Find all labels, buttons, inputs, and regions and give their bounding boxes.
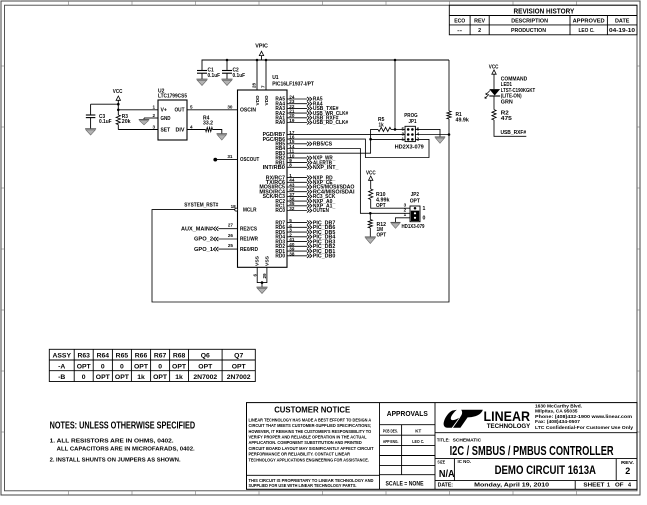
- svg-text:--: --: [457, 28, 462, 34]
- svg-text:R67: R67: [154, 353, 167, 360]
- net label RA5: [287, 97, 323, 103]
- svg-text:OSCIN: OSCIN: [240, 107, 256, 113]
- svg-text:27: 27: [228, 223, 234, 228]
- svg-text:SHEET: SHEET: [583, 483, 605, 489]
- svg-text:SCHEMATIC: SCHEMATIC: [453, 437, 482, 443]
- svg-text:LEO C.: LEO C.: [579, 28, 595, 34]
- svg-text:USB_RXF#: USB_RXF#: [501, 130, 527, 136]
- svg-text:R68: R68: [173, 353, 186, 360]
- revision history table: [449, 5, 637, 35]
- svg-text:Q7: Q7: [234, 353, 243, 360]
- svg-text:OPT: OPT: [232, 363, 247, 370]
- wire RB3 (pin 11) to R5 / JP1 pin 1: [287, 129, 378, 153]
- svg-text:APPROVED: APPROVED: [573, 19, 605, 25]
- svg-text:OPT: OPT: [134, 363, 149, 370]
- svg-text:GND: GND: [161, 116, 171, 122]
- ground (R4): [217, 133, 228, 135]
- svg-text:0: 0: [158, 363, 162, 370]
- svg-text:LINEAR: LINEAR: [484, 408, 531, 424]
- svg-text:GPO_2: GPO_2: [194, 237, 213, 243]
- svg-text:REVISION HISTORY: REVISION HISTORY: [514, 9, 575, 16]
- svg-text:-A: -A: [58, 363, 65, 370]
- svg-text:DIV: DIV: [176, 127, 186, 133]
- svg-text:2: 2: [478, 28, 481, 34]
- wire JP1 pin 6 to ground: [415, 129, 440, 137]
- svg-text:KT: KT: [415, 429, 421, 434]
- svg-text:AUX_MAIN#: AUX_MAIN#: [181, 226, 213, 232]
- svg-text:LINEAR TECHNOLOGY HAS MADE A B: LINEAR TECHNOLOGY HAS MADE A BEST EFFORT…: [249, 417, 372, 422]
- wire PGC/RB6 (pin 16) to JP1 pin 2: [287, 139, 429, 157]
- svg-text:1: 1: [401, 136, 404, 141]
- svg-text:ASSY: ASSY: [52, 353, 71, 360]
- junction RB3/JP1 pin 1: [369, 138, 372, 141]
- svg-text:SUPPLIED FOR USE WITH LINEAR T: SUPPLIED FOR USE WITH LINEAR TECHNOLOGY …: [249, 483, 357, 488]
- junction VSS: [261, 281, 264, 284]
- svg-text:JP1: JP1: [409, 119, 417, 125]
- svg-text:1: 1: [607, 483, 610, 489]
- svg-text:R64: R64: [97, 353, 110, 360]
- svg-text:OUTEN: OUTEN: [313, 208, 329, 214]
- svg-text:0: 0: [101, 363, 105, 370]
- svg-text:IC NO.: IC NO.: [458, 459, 472, 464]
- svg-text:1: 1: [152, 105, 155, 110]
- svg-text:OPT: OPT: [410, 198, 421, 204]
- svg-text:25: 25: [228, 243, 234, 248]
- svg-text:33.2: 33.2: [203, 121, 213, 127]
- svg-text:APPLICATION. COMPONENT SUBSTI: APPLICATION. COMPONENT SUBSTITUTION AND …: [249, 440, 363, 445]
- svg-text:VSS: VSS: [255, 256, 260, 266]
- svg-text:Milpitas, CA 95035: Milpitas, CA 95035: [535, 409, 578, 414]
- svg-text:PCB DES.: PCB DES.: [383, 429, 398, 434]
- svg-text:PRODUCTION: PRODUCTION: [511, 28, 546, 34]
- capacitor C3 0.1uF: [86, 104, 112, 129]
- net label NXP_RD_: [287, 175, 335, 181]
- wire C3 branch: [91, 103, 119, 105]
- wire VCC vertical to V+ and SET: [117, 100, 119, 129]
- net label PIC_DB3: [287, 239, 335, 245]
- svg-text:R63: R63: [77, 353, 90, 360]
- wire R4 to ground: [213, 130, 222, 134]
- notes text: [50, 421, 196, 464]
- svg-text:OUT: OUT: [175, 108, 186, 114]
- svg-text:OPT: OPT: [115, 374, 130, 381]
- svg-text:4: 4: [628, 483, 631, 489]
- svg-text:1k: 1k: [379, 122, 384, 128]
- ground (C2): [222, 78, 233, 80]
- net label GPO_2: [194, 237, 238, 243]
- svg-text:2: 2: [625, 466, 630, 476]
- svg-text:DESCRIPTION: DESCRIPTION: [511, 19, 548, 25]
- svg-text:26: 26: [228, 233, 234, 238]
- svg-text:NXP_INT_: NXP_INT_: [313, 165, 339, 171]
- ground (JP1 pin 6): [435, 136, 446, 138]
- svg-text:29: 29: [262, 273, 267, 279]
- svg-text:APPROVALS: APPROVALS: [387, 411, 428, 418]
- svg-text:GRN: GRN: [501, 100, 513, 106]
- svg-text:2N7002: 2N7002: [227, 374, 251, 381]
- net label RC4/MISO/SDAI: [287, 189, 355, 195]
- svg-text:HD1X3-079: HD1X3-079: [402, 224, 425, 230]
- svg-text:5: 5: [190, 105, 193, 110]
- wire VSS pins to ground: [257, 267, 267, 287]
- svg-text:HD2X3-079: HD2X3-079: [395, 144, 424, 150]
- svg-text:4: 4: [190, 124, 193, 129]
- svg-text:Fax: (408)434-0507: Fax: (408)434-0507: [535, 419, 581, 424]
- svg-text:OF: OF: [615, 483, 624, 489]
- svg-text:2. INSTALL SHUNTS ON JUMPERS A: 2. INSTALL SHUNTS ON JUMPERS AS SHOWN.: [50, 458, 181, 464]
- svg-text:0: 0: [120, 363, 124, 370]
- junction C2/rail: [226, 59, 229, 62]
- svg-text:USB_RD_CLK#: USB_RD_CLK#: [313, 120, 348, 126]
- junction OSCOUT end dot: [213, 158, 217, 162]
- net label RC3_SCK: [287, 194, 336, 200]
- junction JP1 pin4 / MCLR vertical: [448, 133, 451, 136]
- junction VPIC rail / drop: [394, 59, 397, 62]
- svg-text:VERIFY PROPER AND RELIABLE OPE: VERIFY PROPER AND RELIABLE OPERATION IN …: [249, 435, 367, 440]
- resistor R2 475: [492, 110, 512, 122]
- power symbol VCC (LED1): [489, 65, 499, 90]
- net label PIC_DB0: [287, 254, 335, 260]
- wire U2 GND pin: [144, 118, 158, 120]
- svg-text:3: 3: [152, 124, 155, 129]
- svg-text:OPT: OPT: [377, 233, 387, 239]
- wire OSCOUT stub: [215, 159, 237, 161]
- svg-text:SCALE = NONE: SCALE = NONE: [386, 481, 424, 488]
- svg-text:VCC: VCC: [113, 89, 123, 95]
- svg-text:OPT: OPT: [172, 363, 187, 370]
- svg-text:2: 2: [417, 136, 420, 141]
- net label PIC_DB5: [287, 230, 335, 236]
- svg-text:7: 7: [261, 85, 266, 88]
- svg-text:LTC Confidential-For Customer: LTC Confidential-For Customer Use Only: [535, 425, 634, 430]
- svg-text:CIRCUIT BOARD LAYOUT MAY SIGNI: CIRCUIT BOARD LAYOUT MAY SIGNIFICANTLY A…: [249, 446, 374, 451]
- svg-text:Monday, April 19, 2010: Monday, April 19, 2010: [474, 483, 549, 489]
- svg-text:R65: R65: [116, 353, 129, 360]
- net label USB_TXE#: [287, 106, 339, 112]
- net label RC5/MOSI/SDAO: [287, 185, 355, 191]
- net label OUTEN: [287, 208, 329, 214]
- wire RB4 (pin 14) to JP2 pin 2: [287, 149, 410, 214]
- assembly options table: [49, 349, 255, 381]
- net label RB5/CS: [287, 142, 333, 148]
- wire MCLR loop (SYSTEM_RST#): [152, 119, 449, 302]
- connector JP2 OPT HD1X3-079: [402, 192, 426, 230]
- junction VCC/C3: [117, 103, 120, 106]
- capacitor C2 0.1uF: [222, 60, 245, 79]
- svg-text:NOTES: UNLESS OTHERWISE SPECI: NOTES: UNLESS OTHERWISE SPECIFIED: [50, 421, 196, 432]
- svg-text:6: 6: [252, 274, 257, 277]
- svg-text:I2C / SMBUS / PMBUS CONTROLLER: I2C / SMBUS / PMBUS CONTROLLER: [450, 444, 614, 458]
- net label NXP_CE_: [287, 180, 335, 186]
- svg-text:2N7002: 2N7002: [193, 374, 217, 381]
- svg-text:TECHNOLOGY APPLICATIONS ENGINE: TECHNOLOGY APPLICATIONS ENGINEERING FOR …: [249, 457, 369, 462]
- net label PIC_DB7: [287, 220, 335, 226]
- svg-text:RD0: RD0: [275, 254, 285, 260]
- svg-text:20k: 20k: [122, 119, 131, 125]
- svg-text:18: 18: [231, 204, 237, 209]
- net label USB_RD_CLK#: [287, 120, 348, 126]
- svg-text:U1: U1: [272, 75, 279, 81]
- svg-text:31: 31: [227, 154, 233, 159]
- svg-text:30: 30: [227, 104, 233, 109]
- junction RB4 net / R12: [369, 212, 372, 215]
- junction VCC/V+: [117, 109, 120, 112]
- wire R5 to JP1 pin 5: [391, 128, 405, 130]
- net label PIC_DB6: [287, 225, 335, 231]
- svg-text:CIRCUIT THAT MEETS CUSTOMER-SU: CIRCUIT THAT MEETS CUSTOMER-SUPPLIED SPE…: [249, 423, 372, 428]
- net label PIC_DB2: [287, 244, 335, 250]
- resistor R12 1M OPT: [368, 213, 387, 238]
- svg-text:VDD: VDD: [264, 95, 269, 106]
- svg-text:VSS: VSS: [264, 256, 269, 266]
- title block: [247, 403, 638, 490]
- net label NXP_A1_: [287, 204, 335, 210]
- svg-text:RC0: RC0: [275, 208, 285, 214]
- wire VPIC rail drop to JP1 pin 5: [394, 60, 396, 129]
- svg-text:OSCOUT: OSCOUT: [240, 157, 260, 163]
- svg-text:VCC: VCC: [366, 170, 376, 176]
- svg-text:RA0: RA0: [275, 120, 285, 126]
- wire VPIC rail to R1: [448, 60, 450, 111]
- junction R5/VPIC drop: [394, 128, 397, 131]
- svg-text:OPT: OPT: [96, 374, 111, 381]
- svg-text:1k: 1k: [175, 374, 183, 381]
- resistor R1 49.9k: [447, 111, 469, 123]
- net label AUX_MAIN#: [181, 226, 238, 232]
- power symbol VPIC: [255, 43, 268, 60]
- net label PIC_DB4: [287, 235, 335, 241]
- svg-text:HOWEVER, IT REMAINS THE CUSTOM: HOWEVER, IT REMAINS THE CUSTOMER'S RESPO…: [249, 429, 372, 434]
- net label USB_RXF#: [287, 116, 339, 122]
- ground (U2 GND): [139, 119, 150, 121]
- svg-text:04-19-10: 04-19-10: [609, 28, 635, 34]
- svg-text:DATE:: DATE:: [438, 483, 454, 489]
- wire LED to R2: [493, 96, 495, 110]
- svg-text:JP2: JP2: [411, 192, 419, 198]
- svg-text:RB5/CS: RB5/CS: [313, 142, 333, 148]
- net label PIC_DB1: [287, 249, 335, 255]
- wire V+: [118, 109, 158, 111]
- resistor R3 20k: [116, 114, 131, 125]
- resistor R5 1k: [378, 117, 391, 131]
- svg-text:MCLR: MCLR: [243, 207, 257, 213]
- wire R2 to USB_RXF#: [494, 120, 526, 136]
- svg-text:1: 1: [423, 206, 426, 212]
- wire JP1 pin 1 stub: [371, 138, 405, 140]
- svg-text:49.9k: 49.9k: [456, 117, 469, 123]
- svg-text:SIZE: SIZE: [437, 459, 445, 464]
- net label ALERTB: [287, 160, 332, 166]
- net label NXP_A0_: [287, 199, 335, 205]
- svg-text:PIC_DB0: PIC_DB0: [313, 254, 336, 260]
- svg-text:DATE: DATE: [615, 19, 630, 25]
- svg-text:CUSTOMER NOTICE: CUSTOMER NOTICE: [274, 405, 350, 415]
- wire JP1 pin 4 to MCLR net: [415, 134, 449, 136]
- svg-text:0: 0: [423, 215, 426, 221]
- svg-text:LEO C.: LEO C.: [412, 439, 424, 444]
- net label USB_WR_CLK#: [287, 111, 348, 117]
- connector JP1 PROG HD2X3-079: [395, 113, 424, 150]
- svg-text:0: 0: [82, 374, 86, 381]
- wire R10 to JP2 pin 3: [371, 200, 410, 209]
- junction VDD pin 7: [265, 59, 268, 62]
- svg-text:1. ALL RESISTORS ARE IN OHMS,: 1. ALL RESISTORS ARE IN OHMS, 0402.: [50, 439, 175, 445]
- power symbol VCC (JP2 pullup): [366, 170, 376, 189]
- svg-text:2: 2: [152, 113, 155, 118]
- svg-text:0.1uF: 0.1uF: [208, 73, 221, 79]
- net label NXP_WR_: [287, 156, 335, 162]
- power symbol VCC (U2 supply): [113, 89, 123, 100]
- svg-text:DEMO CIRCUIT 1613A: DEMO CIRCUIT 1613A: [495, 463, 597, 477]
- svg-text:TECHNOLOGY: TECHNOLOGY: [487, 423, 531, 430]
- svg-text:INT/RB0: INT/RB0: [263, 165, 286, 171]
- svg-text:OPT: OPT: [198, 363, 213, 370]
- net label NXP_INT_: [287, 165, 339, 171]
- svg-text:VDD: VDD: [255, 95, 260, 106]
- svg-text:0.1uF: 0.1uF: [233, 73, 246, 79]
- svg-text:1k: 1k: [137, 374, 145, 381]
- svg-text:SYSTEM_RST#: SYSTEM_RST#: [184, 203, 218, 209]
- LED LED1 LTST-C190KGKT GRN: [485, 76, 536, 105]
- resistor R4 33.2: [203, 115, 213, 131]
- svg-text:475: 475: [501, 116, 512, 122]
- svg-text:SET: SET: [161, 127, 171, 133]
- junction VDD pin 28: [256, 59, 259, 62]
- capacitor C1 0.1uF: [197, 68, 220, 80]
- svg-text:28: 28: [252, 82, 257, 88]
- ground (C3): [85, 128, 96, 130]
- svg-text:GPO_1: GPO_1: [194, 247, 213, 253]
- net label GPO_1: [194, 247, 238, 253]
- svg-text:V+: V+: [161, 108, 167, 114]
- ground (U1 VSS): [257, 286, 268, 288]
- svg-text:N/A: N/A: [439, 469, 455, 480]
- svg-text:REV: REV: [474, 19, 485, 25]
- wire SET: [118, 129, 158, 131]
- U1 right pin names and numbers: [259, 94, 294, 259]
- svg-text:OPT: OPT: [153, 374, 168, 381]
- ground (R12): [365, 236, 376, 238]
- svg-text:RE2/CS: RE2/CS: [240, 226, 257, 232]
- ground (C1): [197, 78, 208, 80]
- wire VPIC rail: [202, 60, 449, 71]
- svg-text:APP ENG.: APP ENG.: [383, 439, 399, 444]
- wire U2 OUT to U1 OSCIN: [187, 104, 238, 109]
- wire VDD stubs: [257, 60, 266, 90]
- svg-text:-B: -B: [58, 374, 65, 381]
- resistor R10 4.99k OPT: [369, 189, 390, 209]
- svg-text:TITLE:: TITLE:: [437, 437, 450, 442]
- IC U1 PIC16LF1937-I/PT: [227, 75, 314, 278]
- svg-text:VPIC: VPIC: [255, 43, 268, 49]
- svg-text:Q6: Q6: [201, 353, 210, 360]
- svg-text:0.1uF: 0.1uF: [99, 119, 112, 125]
- svg-text:REV.: REV.: [621, 460, 634, 465]
- svg-text:OPT: OPT: [77, 363, 92, 370]
- svg-text:3: 3: [404, 202, 407, 207]
- svg-text:ECO: ECO: [454, 19, 465, 25]
- wire PGD/RB7 (pin 17) to JP1 pin 3: [287, 133, 405, 135]
- svg-text:RE1/WR: RE1/WR: [240, 237, 258, 243]
- svg-text:R66: R66: [135, 353, 148, 360]
- IC U2 LTC1799CS5: [152, 88, 193, 140]
- svg-text:1: 1: [404, 212, 407, 217]
- wire U2 DIV to R4: [187, 129, 206, 131]
- wire JP2 pin 1 to ground: [396, 218, 411, 223]
- ground (JP2 pin 1): [391, 222, 401, 224]
- svg-text:ALL CAPACITORS ARE IN MICROFAR: ALL CAPACITORS ARE IN MICROFARADS, 0402.: [57, 446, 195, 452]
- svg-text:PERFORMANCE OR RELIABILITY. C: PERFORMANCE OR RELIABILITY. CONTACT LINE…: [249, 452, 351, 457]
- net label RA4: [287, 101, 323, 107]
- svg-text:PIC16LF1937-I/PT: PIC16LF1937-I/PT: [272, 82, 315, 88]
- svg-text:RE0/RD: RE0/RD: [240, 247, 258, 253]
- svg-text:LTC1799CS5: LTC1799CS5: [158, 94, 187, 100]
